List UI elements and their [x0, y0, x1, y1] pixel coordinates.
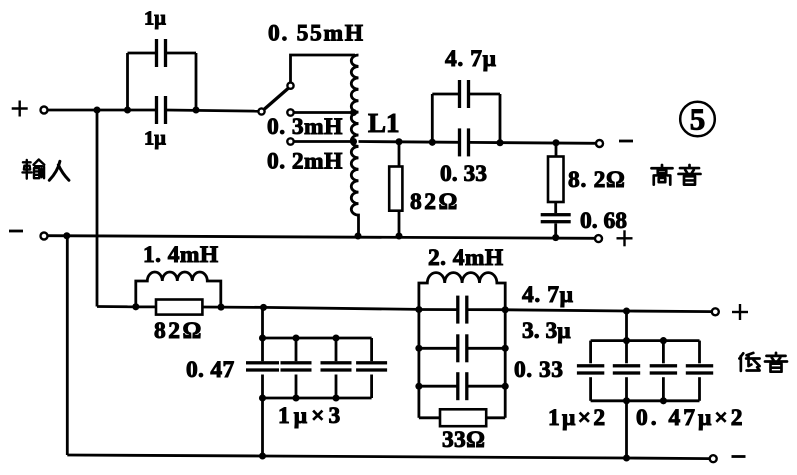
svg-text:L1: L1 — [368, 108, 400, 138]
svg-text:0. 2mH: 0. 2mH — [267, 149, 343, 175]
svg-text:0. 47: 0. 47 — [186, 357, 235, 383]
svg-text:2. 4mH: 2. 4mH — [428, 245, 504, 271]
svg-text:1. 4mH: 1. 4mH — [143, 242, 219, 268]
svg-text:0. 68: 0. 68 — [580, 208, 627, 234]
svg-text:82Ω: 82Ω — [154, 318, 204, 344]
svg-text:3. 3μ: 3. 3μ — [522, 318, 571, 344]
svg-text:1μ×2: 1μ×2 — [548, 405, 607, 431]
svg-text:0. 3mH: 0. 3mH — [267, 114, 343, 140]
svg-text:1μ: 1μ — [144, 128, 166, 150]
svg-text:4. 7μ: 4. 7μ — [445, 46, 497, 72]
svg-text:1μ×3: 1μ×3 — [278, 403, 344, 429]
svg-text:0. 47μ×2: 0. 47μ×2 — [636, 405, 745, 431]
svg-text:82Ω: 82Ω — [410, 189, 460, 215]
svg-text:0. 33: 0. 33 — [440, 161, 487, 187]
svg-text:1μ: 1μ — [144, 8, 166, 30]
svg-text:0. 55mH: 0. 55mH — [268, 21, 365, 47]
svg-text:0. 33: 0. 33 — [514, 357, 564, 383]
svg-text:4. 7μ: 4. 7μ — [522, 282, 574, 308]
svg-text:5: 5 — [690, 102, 706, 137]
svg-text:33Ω: 33Ω — [442, 427, 485, 453]
svg-text:8. 2Ω: 8. 2Ω — [568, 167, 626, 193]
